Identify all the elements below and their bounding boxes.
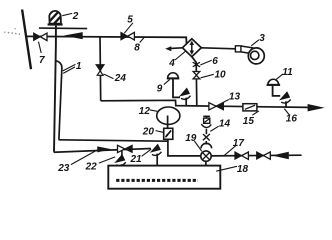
- svg-text:1: 1: [76, 61, 82, 72]
- check valve 7: [34, 33, 47, 41]
- label 20 leader: [156, 131, 164, 133]
- label 14 leader: [210, 126, 218, 131]
- angle nozzle valve at 9: [180, 88, 190, 105]
- exhaust line from diamond with left arrow: [169, 47, 183, 50]
- label 17 leader: [224, 146, 235, 156]
- rotameter 20: [164, 128, 173, 139]
- valve 17b: [257, 152, 271, 160]
- label 7 leader: [39, 42, 42, 53]
- label 6 leader: [200, 60, 211, 65]
- breather 2 base bar: [48, 23, 63, 25]
- breather 9 dome: [167, 73, 180, 79]
- spray nozzle 21: [151, 145, 161, 167]
- label 11 leader: [276, 74, 283, 79]
- pipe from diamond to fan 3: [201, 48, 235, 49]
- downpipe from diamond with pinch 6 and valve 10: [192, 57, 197, 106]
- fan 3: [235, 46, 264, 64]
- svg-text:7: 7: [39, 55, 45, 66]
- svg-text:11: 11: [282, 67, 293, 78]
- label 19 leader: [194, 141, 201, 151]
- main intake pipe (line A): [26, 36, 186, 43]
- riser pipe 1 branch (right line): [56, 61, 62, 140]
- label 18 leader: [216, 166, 237, 171]
- label 5 leader: [124, 23, 133, 33]
- tank heating element (dashed strip): [116, 179, 198, 182]
- pipe from breather 9 to nozzle valve: [173, 79, 180, 97]
- svg-text:6: 6: [212, 56, 218, 67]
- label 16 leader: [284, 109, 289, 115]
- svg-text:12: 12: [139, 106, 151, 117]
- spray nozzle 22: [116, 151, 126, 167]
- collector pipe (manifold), jogged: [101, 100, 308, 107]
- flow arrow on main pipe (pointing left): [64, 32, 83, 39]
- spray feed line L2 (upper): [59, 139, 168, 141]
- svg-text:2: 2: [72, 11, 79, 22]
- label 12 leader: [150, 110, 158, 111]
- label 23 leader: [71, 150, 97, 165]
- stem from mixer 19 into tank: [205, 161, 207, 166]
- flow arrow on L1 (pointing right): [97, 146, 111, 152]
- svg-text:24: 24: [114, 73, 127, 84]
- diamond inner double arrow: [190, 41, 195, 55]
- svg-text:8: 8: [134, 42, 140, 53]
- drain fitting 14 (funnel with seal): [201, 116, 212, 148]
- svg-text:10: 10: [215, 70, 227, 81]
- svg-text:13: 13: [229, 91, 241, 102]
- pipe from rotameter 20 to mixer 19: [168, 139, 201, 156]
- label 8 leader: [140, 38, 144, 43]
- valve 5 on main pipe: [121, 32, 134, 40]
- breather 11 dome: [267, 79, 281, 85]
- angle nozzle valve at 11: [281, 92, 291, 107]
- svg-text:20: 20: [142, 126, 155, 137]
- label 13 leader: [217, 100, 229, 106]
- label 1 leaders: [63, 64, 76, 71]
- spray feed line L1 (lower): [54, 149, 151, 153]
- damper 15: [243, 104, 257, 111]
- label 22 leader: [99, 157, 115, 163]
- valve 17a: [235, 152, 249, 160]
- vessel 12 internal outlet stem: [167, 116, 169, 129]
- separator vessel 12 (ellipse): [157, 107, 180, 124]
- flow arrow on line 17 (pointing left): [272, 152, 289, 160]
- valve 23line: [118, 145, 133, 152]
- svg-text:3: 3: [259, 33, 265, 44]
- label 15 leader: [252, 111, 259, 115]
- valve 10: [193, 72, 200, 79]
- atmosphere boundary diagonal line: [22, 10, 31, 70]
- make-up water line 17: [211, 154, 301, 157]
- svg-text:18: 18: [237, 164, 249, 175]
- riser pipe 1 (left line from breather down): [54, 26, 56, 152]
- faint dotted marks left of diagonal: [4, 28, 20, 35]
- svg-text:15: 15: [243, 116, 255, 127]
- label 9 leader: [164, 80, 170, 85]
- svg-text:23: 23: [57, 163, 70, 174]
- valve 24: [96, 65, 104, 76]
- crossbar line above main pipe: [39, 27, 87, 30]
- label 21 leader: [142, 149, 152, 156]
- pipe from breather 11 to nozzle valve: [273, 86, 281, 96]
- branch pipe with valve 24: [99, 36, 102, 101]
- svg-text:17: 17: [233, 138, 245, 149]
- label 4 leader: [175, 51, 186, 60]
- pinch fitting 6: [193, 62, 201, 67]
- label 10 leader: [201, 74, 214, 78]
- svg-text:21: 21: [130, 154, 143, 165]
- svg-text:5: 5: [127, 14, 133, 25]
- tank 18: [108, 166, 220, 189]
- svg-text:16: 16: [286, 114, 298, 125]
- svg-text:4: 4: [168, 58, 175, 69]
- breather 2 hatched head: [47, 8, 63, 27]
- leader to label 2: [62, 13, 72, 15]
- heat exchanger 4 (diamond): [182, 39, 201, 57]
- svg-text:19: 19: [185, 133, 197, 144]
- label 24 leader: [104, 74, 114, 79]
- svg-text:9: 9: [157, 83, 163, 94]
- valve 13: [209, 103, 224, 110]
- flow arrow 16 end (pointing right): [308, 104, 325, 111]
- mixer 19 (circle with cross): [201, 151, 211, 161]
- label 3 leader: [251, 40, 259, 46]
- svg-text:22: 22: [85, 161, 98, 172]
- svg-text:14: 14: [219, 118, 231, 129]
